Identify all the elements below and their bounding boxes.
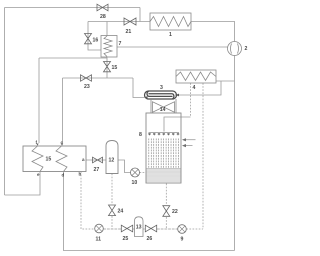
svg-text:d: d [62, 173, 65, 178]
wire vessel12 to pump10 [118, 160, 131, 173]
wire left outer vertical [4, 8, 6, 196]
pump 10 [131, 168, 140, 177]
svg-text:16: 16 [93, 38, 99, 44]
pump 11 [95, 224, 104, 233]
svg-text:b: b [79, 172, 82, 177]
wire a to valve27 to vessel12 [86, 159, 106, 161]
wire exch1 to compressor [191, 22, 235, 42]
wire port f vertical [38, 58, 40, 143]
wire y21.5 line [88, 21, 150, 23]
svg-text:12: 12 [109, 158, 115, 164]
tube bundle [149, 139, 179, 168]
wire compressor discharge down [234, 56, 236, 251]
valve 21 [124, 18, 136, 25]
port arrow c [61, 144, 63, 146]
valve 28 [97, 4, 108, 11]
valve 24 [109, 205, 116, 216]
valve 26 [145, 225, 156, 232]
svg-text:15: 15 [46, 157, 52, 163]
heat exchanger 4 [176, 70, 216, 83]
heat exchanger 1 [150, 13, 191, 30]
svg-text:15: 15 [112, 65, 118, 71]
wire bottom-left L to port e [5, 172, 41, 196]
svg-text:9: 9 [181, 237, 184, 243]
finned coil 3 [145, 91, 177, 99]
wire dashed pump10 to column [140, 172, 147, 174]
svg-text:27: 27 [94, 167, 100, 173]
svg-text:25: 25 [123, 236, 129, 242]
valve 16 [85, 34, 92, 44]
valve 25 [121, 225, 132, 232]
wire to coil3 left [133, 78, 144, 98]
svg-text:22: 22 [172, 209, 178, 215]
wire dashed column drain valve22 [165, 184, 167, 206]
svg-text:c: c [61, 140, 64, 145]
svg-text:7: 7 [119, 41, 122, 47]
svg-text:e: e [37, 172, 40, 177]
svg-text:2: 2 [245, 46, 248, 52]
wire dashed vessel12 drain valve24 [111, 174, 113, 205]
wire dashed port b drain [81, 172, 95, 230]
valve 15 [104, 62, 111, 72]
wire rect7 bottom to y78 through valve 15 [106, 57, 108, 78]
air arrow upper [183, 139, 196, 147]
wire exch4 right to riser [216, 80, 235, 82]
svg-text:11: 11 [96, 237, 102, 243]
vessel 13 [135, 217, 144, 237]
svg-text:1: 1 [169, 32, 172, 38]
water pool [147, 168, 181, 183]
column 8 shell [146, 113, 181, 183]
svg-text:14: 14 [160, 107, 166, 113]
wire coil3 outlet up [175, 81, 221, 95]
wire y78 line [63, 77, 134, 79]
svg-text:13: 13 [136, 225, 142, 231]
fan 14 housing [151, 99, 176, 113]
svg-text:3: 3 [160, 85, 163, 91]
valve 22 [163, 206, 170, 217]
wire spray feed L [164, 117, 191, 132]
port arrow f [36, 144, 38, 146]
wire rect7 top riser [106, 22, 108, 37]
heat exchanger 7 [101, 36, 117, 58]
wire bottom loop to port d [64, 172, 235, 251]
wire dashed exch4 to column spray [190, 83, 192, 117]
pump 9 [178, 225, 187, 234]
svg-text:21: 21 [126, 29, 132, 35]
svg-text:a: a [82, 157, 85, 162]
air arrow lower [185, 145, 193, 147]
svg-text:8: 8 [139, 132, 142, 138]
coil3 inlet arrowhead [144, 96, 148, 99]
wire dashed right riser from pump9 [202, 83, 204, 229]
wire dashed bottom row [103, 228, 121, 230]
wire valve16 branch [88, 22, 101, 51]
svg-text:4: 4 [193, 85, 196, 91]
wire y58 line [39, 57, 107, 59]
svg-text:26: 26 [147, 236, 153, 242]
spray header [149, 131, 180, 133]
wire top line y8 [5, 7, 141, 9]
wire port c vertical [62, 78, 64, 143]
coil3 outlet arrowhead [176, 94, 180, 97]
valve 23 [81, 75, 92, 81]
svg-text:23: 23 [84, 84, 90, 90]
svg-text:10: 10 [132, 180, 138, 186]
svg-text:24: 24 [118, 209, 124, 215]
heat exchanger 15 [23, 146, 86, 172]
compressor U2 [228, 42, 242, 56]
vessel 12 [106, 141, 118, 174]
svg-text:28: 28 [100, 14, 106, 20]
wire exch7 to compressor suction [117, 46, 228, 48]
wire valve28 drop [139, 8, 141, 22]
fan 14 blades [153, 102, 164, 112]
valve 27 [93, 157, 103, 163]
